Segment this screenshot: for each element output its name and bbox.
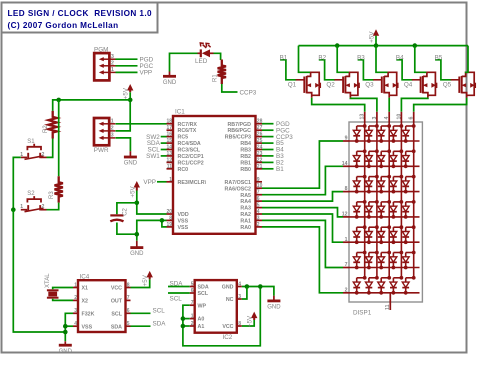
- svg-text:18: 18: [166, 119, 172, 125]
- junction R3 tap: [56, 98, 61, 103]
- svg-text:25: 25: [257, 138, 263, 144]
- svg-text:22: 22: [257, 157, 263, 163]
- wire B5 label to gate: [435, 60, 451, 80]
- LED matrix cell r1c1: [353, 124, 366, 143]
- svg-text:Q5: Q5: [443, 82, 452, 89]
- svg-text:5: 5: [257, 203, 260, 209]
- svg-text:4: 4: [384, 117, 390, 120]
- svg-text:(C) 2007 Gordon McLellan: (C) 2007 Gordon McLellan: [8, 21, 119, 30]
- ground under IC4: [64, 341, 66, 345]
- LED matrix cell r6c3: [378, 251, 391, 270]
- wire PGM pin2 to PGC label: [116, 65, 138, 67]
- wire B4 label to gate: [396, 60, 412, 80]
- svg-text:26: 26: [257, 132, 263, 138]
- op IC4 pins: [73, 282, 131, 330]
- resistor R1: [218, 60, 226, 85]
- svg-text:19: 19: [166, 222, 172, 228]
- wire B1 label to gate: [280, 60, 296, 80]
- supply +5V at IC4: [149, 276, 151, 279]
- svg-text:Q3: Q3: [365, 82, 374, 89]
- wire IC1 VPP stub: [157, 181, 167, 183]
- svg-text:6: 6: [191, 288, 194, 294]
- svg-text:10: 10: [257, 183, 263, 189]
- display DISP1 column pins: [360, 112, 415, 123]
- LED matrix cell r5c4: [390, 225, 403, 244]
- svg-text:C2: C2: [123, 207, 129, 215]
- svg-text:RC0: RC0: [178, 167, 189, 173]
- svg-text:Q2: Q2: [326, 82, 335, 89]
- LED matrix cell r4c5: [402, 200, 415, 219]
- svg-text:1: 1: [191, 313, 194, 319]
- wire IC2 SCL stub: [168, 292, 190, 294]
- svg-text:RB7/PGD: RB7/PGD: [227, 122, 251, 128]
- svg-text:12: 12: [342, 212, 348, 218]
- svg-text:RC2/CCP1: RC2/CCP1: [178, 154, 204, 160]
- svg-text:13: 13: [360, 114, 366, 120]
- wire R3 to S2: [47, 203, 59, 210]
- svg-text:RA2: RA2: [240, 212, 251, 218]
- title block: [2, 3, 158, 33]
- wire R3 drop: [58, 100, 60, 176]
- wire Q4 source: [415, 46, 427, 73]
- junction A1: [181, 324, 186, 329]
- svg-text:12: 12: [166, 157, 172, 163]
- LED matrix cell r7c3: [378, 276, 391, 295]
- LED matrix cell r1c4: [390, 124, 403, 143]
- svg-text:6: 6: [127, 308, 130, 314]
- transistor Q4: [412, 72, 437, 97]
- wire IC1 RA to matrix row 7: [262, 227, 343, 293]
- wire PWR pin3 to ground: [116, 138, 131, 151]
- junction ground rail at S2: [11, 207, 16, 212]
- LED matrix cell r6c2: [366, 251, 379, 270]
- LED matrix cell r6c4: [390, 251, 403, 270]
- svg-text:IC2: IC2: [223, 334, 233, 341]
- svg-text:RA5: RA5: [240, 193, 251, 199]
- svg-text:VCC: VCC: [222, 324, 233, 330]
- wire PWR pin1 to IC1 RX: [116, 123, 167, 125]
- supply +5V near PWR: [129, 89, 131, 92]
- svg-text:VDD: VDD: [178, 212, 189, 218]
- wire S1 to ground rail: [13, 157, 20, 209]
- LED matrix cell r4c3: [378, 200, 391, 219]
- svg-text:+5V: +5V: [247, 315, 254, 327]
- svg-text:X2: X2: [82, 299, 89, 305]
- wire IC4 VCC to +5V: [131, 279, 150, 287]
- wire IC2 VCC to +5V: [242, 320, 254, 326]
- svg-text:RB0: RB0: [240, 167, 251, 173]
- svg-text:LED SIGN / CLOCK REVISION 1.0: LED SIGN / CLOCK REVISION 1.0: [8, 9, 153, 18]
- svg-text:+5V: +5V: [123, 87, 130, 99]
- display DISP1 pin 11 stub: [389, 293, 391, 310]
- svg-text:GND: GND: [163, 80, 177, 86]
- wire C2 bottom: [117, 223, 137, 235]
- svg-text:3: 3: [111, 54, 114, 60]
- svg-text:27: 27: [257, 125, 263, 131]
- svg-text:14: 14: [342, 161, 348, 167]
- svg-text:SW1: SW1: [146, 153, 160, 160]
- wire Q1 drain to matrix col1: [312, 98, 365, 112]
- ground under PWR: [129, 151, 131, 157]
- LED matrix cell r2c3: [378, 149, 391, 168]
- switch S1: [21, 156, 27, 158]
- wire PGM pin1 to VPP label: [116, 71, 138, 73]
- wire Q2 drain to matrix col2: [350, 98, 377, 112]
- LED matrix cell r6c5: [402, 251, 415, 270]
- LED matrix cell r2c5: [402, 149, 415, 168]
- svg-text:1: 1: [74, 282, 77, 288]
- LED matrix cell r1c2: [366, 124, 379, 143]
- svg-text:RA0: RA0: [240, 225, 251, 231]
- wire WP/A0/A1 tie: [183, 287, 260, 346]
- svg-text:IC4: IC4: [80, 274, 90, 281]
- svg-text:B1: B1: [276, 166, 284, 173]
- svg-text:IC1: IC1: [175, 108, 185, 115]
- svg-text:3: 3: [111, 133, 114, 139]
- svg-text:RA1: RA1: [240, 219, 251, 225]
- svg-text:2: 2: [257, 222, 260, 228]
- LED matrix cell r7c4: [390, 276, 403, 295]
- wire IC1 B5 label stub: [262, 142, 274, 144]
- svg-text:VSS: VSS: [82, 324, 93, 330]
- junction +5V rail: [413, 43, 418, 48]
- svg-text:5: 5: [127, 321, 130, 327]
- junction VSS pins: [160, 218, 165, 223]
- junction A0: [181, 316, 186, 321]
- svg-text:S1: S1: [27, 139, 35, 145]
- wire Q3 source: [376, 46, 388, 73]
- svg-text:RC1/CCP2: RC1/CCP2: [178, 161, 204, 167]
- wire IC1 RA to matrix row 6: [262, 220, 343, 267]
- svg-text:13: 13: [166, 151, 172, 157]
- svg-text:S2: S2: [27, 191, 35, 197]
- ground under C2: [136, 241, 138, 248]
- svg-text:Q1: Q1: [288, 82, 297, 89]
- junction +5V rail split: [128, 98, 133, 103]
- wire Q4 drain to matrix col4: [401, 98, 428, 112]
- wire Q5 drain to matrix col5: [414, 98, 467, 112]
- junction ground rail join: [63, 330, 68, 335]
- svg-text:21: 21: [257, 164, 263, 170]
- op IC1 right pins: [225, 119, 263, 231]
- wire B3 label to gate: [358, 60, 374, 80]
- svg-text:B3: B3: [357, 54, 365, 61]
- wire IC1 PGC label stub: [262, 129, 274, 131]
- LED matrix cell r3c2: [366, 175, 379, 194]
- svg-text:NC: NC: [226, 297, 234, 303]
- svg-text:2: 2: [42, 152, 45, 158]
- connector PWR: [94, 118, 109, 145]
- display DISP1 row buses: [350, 141, 420, 293]
- wire +5V to PWR pin2: [116, 92, 131, 131]
- svg-text:6: 6: [409, 117, 415, 120]
- wire IC1 SW1 label stub: [161, 155, 167, 157]
- svg-text:Q4: Q4: [404, 82, 413, 89]
- svg-text:24: 24: [257, 145, 263, 151]
- svg-text:RB4: RB4: [240, 141, 251, 147]
- svg-text:23: 23: [257, 151, 263, 157]
- svg-text:SDA: SDA: [198, 285, 209, 291]
- svg-text:WP: WP: [198, 303, 207, 309]
- LED matrix cell r5c5: [402, 225, 415, 244]
- svg-text:7: 7: [191, 300, 194, 306]
- supply +5V near IC1: [136, 186, 138, 191]
- LED matrix cell r4c4: [390, 200, 403, 219]
- wire X2 to crystal: [53, 299, 73, 301]
- junction C2 ground: [135, 232, 140, 237]
- wire IC1 RA to matrix row 1: [262, 141, 343, 188]
- svg-text:RB5/CCP3: RB5/CCP3: [225, 135, 251, 141]
- svg-text:R1: R1: [213, 74, 219, 82]
- junction bottom loop: [258, 284, 263, 289]
- wire IC1 RA to matrix row 5: [262, 214, 343, 242]
- svg-text:RB3: RB3: [240, 148, 251, 154]
- svg-text:11: 11: [385, 304, 391, 310]
- svg-text:5: 5: [191, 281, 194, 287]
- wire Q2 source: [337, 46, 349, 73]
- wire Q1 source: [299, 46, 311, 73]
- LED matrix cell r5c1: [353, 225, 366, 244]
- svg-text:VSS: VSS: [178, 219, 189, 225]
- svg-text:B2: B2: [318, 54, 326, 61]
- resistor R2: [49, 111, 57, 139]
- svg-text:4: 4: [74, 321, 77, 327]
- svg-text:GND: GND: [130, 251, 144, 257]
- connector PGM: [94, 53, 109, 80]
- LED matrix cell r2c4: [390, 149, 403, 168]
- svg-text:RA4: RA4: [240, 199, 251, 205]
- display DISP1 box: [349, 122, 422, 302]
- svg-text:DISP1: DISP1: [353, 310, 372, 317]
- junction +5V rail: [374, 43, 379, 48]
- svg-text:RC5: RC5: [178, 135, 189, 141]
- svg-text:F32K: F32K: [82, 311, 95, 317]
- svg-text:3: 3: [372, 117, 378, 120]
- svg-text:GND: GND: [222, 285, 234, 291]
- svg-text:9: 9: [257, 177, 260, 183]
- capacitor C2: [110, 214, 123, 216]
- ground under LED: [169, 72, 171, 77]
- transistor Q5: [451, 72, 475, 97]
- svg-text:1: 1: [111, 67, 114, 73]
- LED matrix cell r1c3: [378, 124, 391, 143]
- svg-text:PGM: PGM: [94, 47, 108, 54]
- svg-text:7: 7: [127, 295, 130, 301]
- wire VSS to ground: [137, 220, 162, 240]
- svg-text:RE3/MCLR\: RE3/MCLR\: [178, 180, 207, 186]
- svg-text:GND: GND: [267, 305, 281, 311]
- wire ground rail to IC4 area: [13, 210, 65, 332]
- wire X1 to crystal: [53, 288, 73, 290]
- wire IC1 B4 label stub: [262, 149, 274, 151]
- LED matrix cell r4c2: [366, 200, 379, 219]
- wire IC1 SW2 label stub: [161, 136, 167, 138]
- svg-text:3: 3: [257, 215, 260, 221]
- svg-text:A1: A1: [198, 324, 205, 330]
- svg-text:SCL: SCL: [153, 308, 166, 315]
- svg-text:SDA: SDA: [111, 324, 122, 330]
- LED matrix cell r1c5: [402, 124, 415, 143]
- wire IC1 B1 label stub: [262, 168, 274, 170]
- LED matrix cell r3c5: [402, 175, 415, 194]
- transistor Q3: [373, 72, 397, 97]
- svg-text:GND: GND: [59, 349, 73, 355]
- junction NC tie: [245, 284, 250, 289]
- LED matrix cell r2c2: [366, 149, 379, 168]
- wire NC tie: [242, 287, 247, 300]
- wire Q3 drain to matrix col3: [388, 98, 390, 112]
- wire +5V to pullup resistors: [53, 100, 131, 111]
- svg-text:14: 14: [166, 145, 172, 151]
- LED matrix cell r6c1: [353, 251, 366, 270]
- wire A1 stub: [183, 325, 190, 327]
- svg-text:VPP: VPP: [143, 179, 156, 186]
- svg-text:RC4/SDA: RC4/SDA: [178, 141, 201, 147]
- wire VSS IC4: [65, 325, 73, 327]
- svg-text:RA7/OSC1: RA7/OSC1: [225, 180, 252, 186]
- wire IC1 CCP3 label stub: [262, 136, 274, 138]
- svg-text:B4: B4: [396, 54, 404, 61]
- svg-text:RC7/RX: RC7/RX: [178, 122, 198, 128]
- wire R1 to CCP3 label: [222, 84, 238, 92]
- op IC4 box: [78, 280, 126, 332]
- svg-text:1: 1: [345, 237, 348, 243]
- op IC1 left pins: [166, 119, 206, 231]
- wire IC1 SCL label stub: [161, 149, 167, 151]
- svg-text:1: 1: [20, 204, 23, 210]
- LED matrix cell r5c2: [366, 225, 379, 244]
- svg-text:20: 20: [166, 209, 172, 215]
- svg-text:2: 2: [111, 126, 114, 132]
- svg-text:10: 10: [396, 114, 402, 120]
- svg-text:R2: R2: [43, 125, 49, 133]
- svg-text:VCC: VCC: [111, 286, 122, 292]
- svg-text:CCP3: CCP3: [240, 89, 257, 96]
- svg-text:2: 2: [74, 295, 77, 301]
- svg-text:2: 2: [345, 287, 348, 293]
- supply +5V at IC2: [253, 317, 255, 320]
- wire IC4 SDA stub: [131, 325, 151, 327]
- svg-text:16: 16: [166, 132, 172, 138]
- svg-text:3: 3: [74, 308, 77, 314]
- supply +5V top rail: [375, 34, 377, 35]
- svg-text:2: 2: [42, 204, 45, 210]
- svg-text:R3: R3: [49, 191, 55, 199]
- svg-text:8: 8: [238, 321, 241, 327]
- svg-text:RB6/PGC: RB6/PGC: [227, 128, 251, 134]
- wire IC1 RA to matrix row 3: [262, 192, 343, 202]
- LED matrix cell r7c2: [366, 276, 379, 295]
- svg-text:XTAL: XTAL: [45, 273, 51, 288]
- wire PGM pin3 to PGD label: [116, 58, 138, 60]
- wire IC2 GND pin to ground: [242, 287, 274, 296]
- svg-text:17: 17: [166, 125, 172, 131]
- wire VSS pins join: [162, 219, 167, 221]
- svg-text:OUT: OUT: [111, 299, 123, 305]
- wire IC4 SCL stub: [131, 312, 151, 314]
- svg-text:SCL: SCL: [111, 311, 122, 317]
- svg-text:15: 15: [166, 138, 172, 144]
- svg-text:RC6/TX: RC6/TX: [178, 128, 197, 134]
- ground at IC2: [273, 296, 275, 301]
- wire R2 to S1: [47, 139, 53, 158]
- switch S2: [21, 209, 27, 211]
- svg-text:SDA: SDA: [170, 280, 184, 287]
- svg-text:SDA: SDA: [153, 321, 167, 328]
- LED matrix cell r7c5: [402, 276, 415, 295]
- wire IC1 RA to matrix row 4: [262, 208, 343, 217]
- wire IC1 SDA label stub: [161, 142, 167, 144]
- svg-text:1: 1: [111, 119, 114, 125]
- svg-text:VPP: VPP: [140, 70, 153, 77]
- LED matrix cell r5c3: [378, 225, 391, 244]
- LED matrix cell r3c4: [390, 175, 403, 194]
- svg-text:7: 7: [345, 262, 348, 268]
- wire IC1 PGD label stub: [262, 123, 274, 125]
- wire B2 label to gate: [319, 60, 335, 80]
- junction IC4 VSS: [63, 324, 68, 329]
- svg-text:GND: GND: [124, 161, 138, 167]
- svg-text:RC3/SCL: RC3/SCL: [178, 148, 201, 154]
- svg-text:11: 11: [167, 164, 173, 170]
- wire IC1 B2 label stub: [262, 161, 274, 163]
- svg-text:A0: A0: [198, 317, 205, 323]
- svg-text:RA3: RA3: [240, 206, 251, 212]
- wire IC2 SDA stub: [168, 286, 190, 288]
- svg-text:2: 2: [111, 61, 114, 67]
- wire F32K to ground: [65, 313, 73, 341]
- svg-text:PWR: PWR: [94, 147, 109, 154]
- wire +5V rail: [299, 45, 469, 47]
- svg-text:RA6/OSC2: RA6/OSC2: [225, 186, 252, 192]
- LED matrix cell r3c3: [378, 175, 391, 194]
- op IC1 box: [173, 116, 256, 234]
- junction C2 tap: [135, 201, 140, 206]
- wire A0 stub: [183, 318, 190, 320]
- display DISP1 column lines: [365, 123, 414, 278]
- svg-text:7: 7: [257, 190, 260, 196]
- svg-text:4: 4: [257, 209, 260, 215]
- crystal XTAL: [47, 289, 59, 291]
- wire +5V arrow to rail: [375, 36, 377, 46]
- svg-text:8: 8: [345, 186, 348, 192]
- op IC2 pins: [190, 281, 242, 330]
- svg-text:9: 9: [345, 136, 348, 142]
- svg-text:VSS: VSS: [178, 225, 189, 231]
- svg-text:8: 8: [127, 282, 130, 288]
- svg-text:X1: X1: [82, 286, 89, 292]
- svg-text:SCL: SCL: [170, 295, 183, 302]
- LED LED1: [198, 52, 201, 54]
- svg-text:RB1: RB1: [240, 161, 251, 167]
- wire LED anode to R1: [214, 53, 221, 60]
- svg-text:+5V: +5V: [369, 31, 376, 43]
- wire LED cathode to GND: [170, 53, 198, 71]
- wire IC1 B3 label stub: [262, 155, 274, 157]
- svg-text:4: 4: [238, 281, 241, 287]
- LED matrix cell r7c1: [353, 276, 366, 295]
- svg-text:1: 1: [169, 177, 172, 183]
- svg-text:+5V: +5V: [129, 185, 136, 197]
- svg-text:+5V: +5V: [142, 274, 149, 286]
- transistor Q1: [296, 72, 320, 97]
- svg-text:2: 2: [191, 321, 194, 327]
- op IC2 box: [195, 280, 237, 333]
- wire C2 top: [117, 203, 137, 214]
- resistor R3: [55, 176, 63, 202]
- LED matrix cell r3c1: [353, 175, 366, 194]
- wire Q5 source: [465, 46, 468, 73]
